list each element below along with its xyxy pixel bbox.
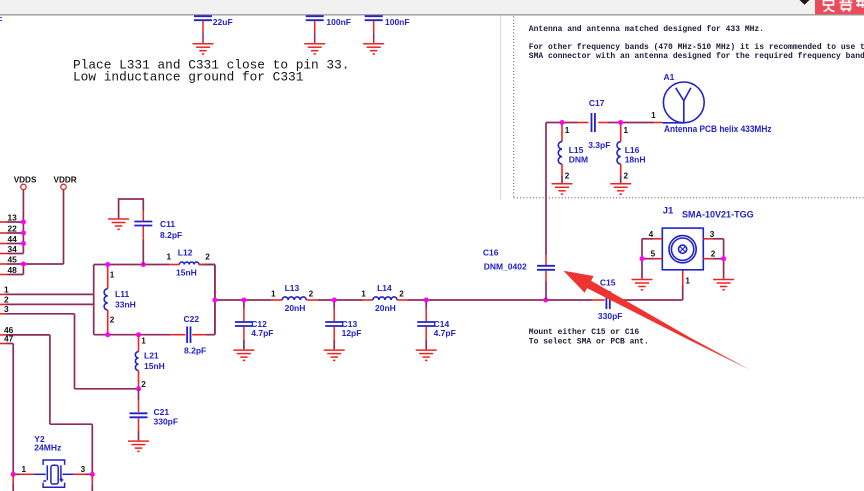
svg-text:5: 5: [651, 249, 656, 258]
svg-text:DNM: DNM: [569, 154, 588, 164]
svg-text:22uF: 22uF: [213, 17, 233, 27]
svg-text:33nH: 33nH: [115, 300, 136, 310]
svg-text:2: 2: [110, 315, 115, 324]
svg-text:1: 1: [141, 337, 146, 346]
svg-text:L14: L14: [377, 283, 392, 293]
svg-text:1: 1: [167, 253, 172, 262]
svg-text:A1: A1: [664, 72, 675, 82]
svg-text:Low inductance ground for C331: Low inductance ground for C331: [73, 70, 304, 85]
svg-text:3: 3: [4, 304, 9, 314]
svg-text:1: 1: [651, 111, 656, 120]
svg-text:1: 1: [271, 290, 276, 299]
svg-text:22: 22: [8, 224, 18, 234]
svg-text:Mount either C15 or C16: Mount either C15 or C16: [529, 328, 640, 337]
svg-text:F: F: [0, 15, 2, 25]
svg-text:3: 3: [710, 230, 715, 239]
svg-text:1: 1: [361, 290, 366, 299]
svg-text:C16: C16: [483, 248, 499, 258]
svg-text:44: 44: [8, 234, 18, 244]
svg-text:12pF: 12pF: [342, 328, 362, 338]
svg-text:13: 13: [8, 213, 18, 223]
svg-text:J1: J1: [663, 206, 674, 217]
svg-text:C22: C22: [184, 314, 200, 324]
svg-text:34: 34: [8, 244, 18, 254]
svg-text:2: 2: [141, 380, 146, 389]
svg-text:L15: L15: [569, 145, 584, 155]
svg-text:C17: C17: [589, 98, 605, 108]
svg-text:Antenna and antenna matched de: Antenna and antenna matched designed for…: [529, 25, 764, 34]
svg-text:2: 2: [399, 290, 404, 299]
svg-text:SMA-10V21-TGG: SMA-10V21-TGG: [682, 209, 754, 220]
svg-text:For other frequency bands (470: For other frequency bands (470 MHz-510 M…: [529, 43, 864, 52]
svg-text:20nH: 20nH: [375, 303, 396, 313]
svg-text:Antenna PCB helix 433MHz: Antenna PCB helix 433MHz: [664, 124, 772, 134]
svg-text:C15: C15: [600, 278, 616, 288]
svg-text:8.2pF: 8.2pF: [160, 230, 182, 240]
svg-text:SMA connector with an antenna: SMA connector with an antenna designed f…: [529, 52, 864, 61]
svg-text:45: 45: [8, 255, 18, 265]
svg-text:L21: L21: [144, 351, 159, 361]
svg-text:L11: L11: [115, 289, 129, 299]
svg-text:L12: L12: [178, 248, 193, 258]
svg-text:2: 2: [624, 171, 629, 180]
svg-text:VDDR: VDDR: [54, 175, 77, 184]
svg-text:18nH: 18nH: [625, 154, 646, 164]
svg-text:L16: L16: [625, 145, 640, 155]
svg-text:8.2pF: 8.2pF: [184, 345, 206, 355]
svg-text:4.7pF: 4.7pF: [251, 328, 273, 338]
svg-text:2: 2: [711, 249, 716, 258]
svg-text:330pF: 330pF: [154, 417, 179, 427]
svg-text:3: 3: [81, 465, 86, 474]
svg-text:To select SMA or PCB ant.: To select SMA or PCB ant.: [529, 337, 649, 346]
svg-text:100nF: 100nF: [385, 17, 410, 27]
svg-text:VDDS: VDDS: [14, 175, 37, 184]
svg-text:C21: C21: [154, 407, 170, 417]
svg-text:DNM_0402: DNM_0402: [484, 261, 527, 271]
svg-text:20nH: 20nH: [285, 303, 306, 313]
svg-text:1: 1: [22, 465, 27, 474]
svg-text:C11: C11: [160, 219, 175, 229]
svg-text:1: 1: [624, 126, 629, 135]
svg-text:2: 2: [309, 290, 314, 299]
svg-text:2: 2: [205, 253, 210, 262]
svg-text:4.7pF: 4.7pF: [434, 328, 456, 338]
svg-text:1: 1: [110, 270, 115, 279]
svg-text:47: 47: [4, 334, 14, 344]
svg-text:1: 1: [4, 284, 9, 294]
svg-text:L13: L13: [285, 283, 300, 293]
svg-text:100nF: 100nF: [326, 17, 351, 27]
svg-text:1: 1: [685, 276, 690, 285]
svg-text:15nH: 15nH: [176, 267, 197, 277]
svg-text:4: 4: [649, 230, 654, 239]
svg-text:24MHz: 24MHz: [34, 442, 61, 452]
svg-text:330pF: 330pF: [598, 311, 623, 321]
svg-text:2: 2: [565, 171, 570, 180]
svg-text:3.3pF: 3.3pF: [588, 140, 610, 150]
svg-text:48: 48: [8, 265, 18, 275]
svg-text:15nH: 15nH: [144, 361, 165, 371]
svg-text:1: 1: [565, 126, 570, 135]
